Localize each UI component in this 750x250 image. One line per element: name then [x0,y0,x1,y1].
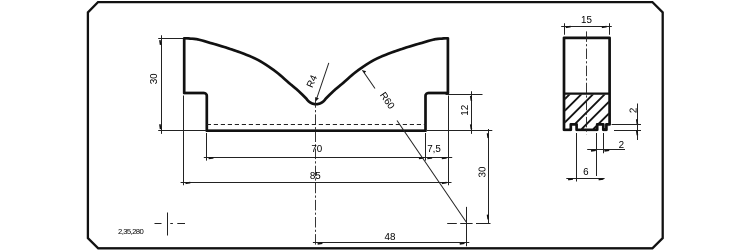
dimension 12 (step height) [427,91,492,134]
dimension 2 (relief depth, right) [612,104,641,141]
svg-text:30: 30 [477,166,488,177]
svg-text:R60: R60 [377,90,397,111]
svg-text:70: 70 [311,144,322,155]
side view (section) outline [564,38,610,130]
dimension 15 (die thickness) [561,15,612,35]
dimension 48 (R60 centre offset from centerline) [313,207,469,246]
R4 fillet leader and label [305,63,329,101]
datum centre mark [155,213,186,236]
dimension 6 (land between grooves) [566,133,604,182]
dimension 85 (overall width) [181,96,452,186]
svg-text:6: 6 [583,167,589,178]
dimension 30 (left height) [149,35,206,134]
side view centerline [586,31,588,134]
svg-text:15: 15 [581,15,592,26]
die main view outline [184,38,448,130]
hidden dashed line (groove depth) [207,124,426,126]
dimension 7,5 (shoulder width) [427,144,452,159]
drawing frame border [88,2,663,248]
svg-text:2: 2 [619,140,624,151]
dimension 70 (groove width) [204,133,429,161]
vertical centerline of V [315,97,317,246]
svg-text:7,5: 7,5 [427,144,441,155]
svg-text:48: 48 [385,232,396,243]
svg-text:30: 30 [149,73,160,84]
R60 radius leader and label [362,70,466,222]
svg-text:12: 12 [460,105,471,116]
svg-text:R4: R4 [305,73,320,89]
R60 arc centre mark [447,223,490,225]
dimension 30 (R60 centre offset below base) [477,129,488,224]
dimension 2 (groove width) [587,133,625,176]
svg-text:2,35,280: 2,35,280 [118,227,143,236]
svg-text:85: 85 [310,171,321,182]
svg-text:2: 2 [628,108,639,113]
section boundary line [564,92,610,94]
